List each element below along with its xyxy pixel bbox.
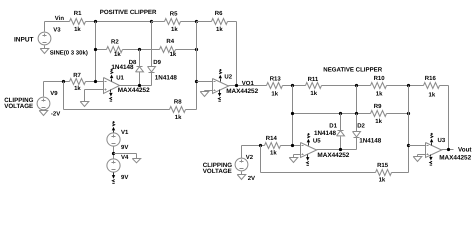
- svg-text:V3: V3: [53, 26, 61, 33]
- ground at V9: [39, 111, 48, 116]
- svg-text:R10: R10: [374, 75, 386, 82]
- svg-text:V2: V2: [246, 154, 254, 161]
- resistor R8: [170, 107, 186, 113]
- wire feedback column x=63.5 down and R8 row y=107.9: [63, 82, 65, 110]
- svg-text:R8: R8: [174, 99, 182, 106]
- diode D8: [137, 66, 143, 68]
- svg-text:1N4148: 1N4148: [314, 130, 337, 137]
- ground at U1 + input: [80, 102, 89, 107]
- svg-text:NEGATIVE CLIPPER: NEGATIVE CLIPPER: [323, 66, 382, 73]
- wire V2 bottom stem: [241, 172, 243, 175]
- svg-text:V1: V1: [121, 129, 129, 136]
- junction node A branch to R2: [94, 48, 97, 51]
- wire supply midpoint to ground: [114, 153, 137, 155]
- wire U5 noninverting input to ground: [294, 154, 301, 156]
- svg-text:1k: 1k: [114, 51, 121, 58]
- wire R1 right to junction A: [86, 21, 152, 23]
- junction node B branch to R9 row: [291, 112, 294, 115]
- wire clipping voltage row y=81.5 to R7: [44, 81, 70, 83]
- svg-text:R11: R11: [308, 76, 319, 83]
- voltage source V4: [107, 159, 120, 172]
- V- flag at V4 supply: [113, 173, 115, 176]
- voltage source V1: [107, 133, 120, 146]
- svg-text:R4: R4: [166, 38, 174, 45]
- wire R5 leads: [152, 21, 165, 23]
- svg-text:MAX44252: MAX44252: [317, 152, 349, 159]
- svg-text:V4: V4: [121, 154, 129, 161]
- voltage source V2: [235, 158, 248, 171]
- svg-text:1k: 1k: [429, 92, 436, 99]
- V+ flag at V1 supply: [113, 131, 115, 134]
- wire U3 inverting input: [409, 145, 426, 147]
- ground at supply midpoint: [132, 159, 140, 163]
- resistor R15: [376, 170, 392, 176]
- svg-text:1k: 1k: [74, 26, 81, 33]
- op-amp U1 MAX44252: [104, 78, 120, 94]
- wire R10 right lead: [387, 85, 424, 87]
- svg-text:1k: 1k: [270, 150, 277, 157]
- svg-text:1k: 1k: [171, 26, 178, 33]
- wire D2 column to diode: [356, 114, 358, 132]
- junction U2 output with R6 feedback: [235, 84, 238, 87]
- wire node A vertical down to U1 inverting input: [95, 22, 97, 82]
- svg-text:U1: U1: [116, 74, 124, 81]
- svg-text:-2V: -2V: [51, 110, 60, 117]
- svg-text:U2: U2: [224, 73, 232, 80]
- wire R16 right corner down to U3 output: [440, 85, 449, 87]
- svg-text:D9: D9: [153, 59, 161, 66]
- junction R7 left / feedback branch: [62, 80, 65, 83]
- V+ flag at U5: [308, 143, 310, 146]
- ground at U2 + input: [200, 92, 209, 97]
- junction U2 inverting input node: [195, 80, 198, 83]
- junction node A (R1/R5/vertical): [94, 20, 97, 23]
- svg-text:INPUT: INPUT: [14, 37, 34, 44]
- svg-text:1N4148: 1N4148: [111, 64, 134, 71]
- voltage source V9: [37, 97, 50, 110]
- resistor R6: [212, 19, 228, 25]
- svg-text:MAX44252: MAX44252: [226, 88, 258, 95]
- wire V3 stem to top rail: [44, 22, 46, 32]
- V- flag at U5: [307, 155, 309, 158]
- svg-text:1k: 1k: [379, 177, 386, 184]
- wire R8 right to rising column: [186, 109, 197, 111]
- svg-text:9V: 9V: [121, 174, 128, 181]
- voltage source V3: [38, 32, 51, 45]
- svg-text:U3: U3: [438, 137, 446, 144]
- svg-text:Vin: Vin: [55, 15, 65, 22]
- svg-text:1N4148: 1N4148: [359, 138, 382, 145]
- wire R15 row y=173.5: [261, 172, 376, 174]
- wire D9 column from junction down: [151, 22, 153, 67]
- V- flag at U2: [219, 90, 221, 94]
- wire D2 bar to U5 output rail corner: [356, 138, 358, 150]
- svg-text:POSITIVE CLIPPER: POSITIVE CLIPPER: [100, 9, 157, 16]
- wire R2 to D8 node: [123, 49, 160, 51]
- svg-text:MAX44252: MAX44252: [118, 87, 150, 94]
- svg-text:1k: 1k: [375, 118, 382, 125]
- wire V9 bottom stem: [43, 110, 45, 112]
- junction D8 top node: [138, 48, 141, 51]
- svg-text:R13: R13: [270, 75, 282, 82]
- wire U2 noninverting input to ground: [205, 90, 213, 92]
- resistor R4: [160, 47, 176, 53]
- wire U1 output rail y=85.5: [120, 85, 152, 87]
- wire V3 bottom to ground: [44, 46, 46, 49]
- V- flag at U3: [430, 155, 432, 157]
- junction R14 left / R15 branch: [259, 144, 262, 147]
- wire R2/R4 row y=49.3: [96, 49, 107, 51]
- resistor R2: [107, 47, 123, 53]
- wire node B vertical down to U5 inverting input: [292, 86, 294, 146]
- junction R10/R16 node: [407, 84, 410, 87]
- V+ flag at U2: [220, 79, 222, 82]
- junction R11/R10 node with D2 column: [355, 84, 358, 87]
- wire R11 right lead: [322, 85, 371, 87]
- svg-text:R9: R9: [374, 103, 382, 110]
- diode D1: [338, 130, 344, 132]
- svg-text:R5: R5: [170, 10, 178, 17]
- wire column x=196.3 from R8 row up to top rail: [196, 22, 198, 110]
- wire D8 cathode to U1 output rail: [139, 72, 141, 86]
- svg-text:SINE(0 3 30k): SINE(0 3 30k): [50, 49, 88, 56]
- svg-text:1N4148: 1N4148: [155, 75, 178, 82]
- wire R15 branch column x=260.5: [260, 146, 262, 173]
- ground at U3 + input: [413, 157, 422, 162]
- junction node B (R13/R11/vertical): [291, 84, 294, 87]
- wire Vin net: V3 to R1 to node A (top rail y=21.4): [45, 21, 70, 23]
- svg-text:VOLTAGE: VOLTAGE: [203, 168, 232, 175]
- resistor R5: [165, 19, 181, 25]
- wire R7 to U1 inverting input: [86, 81, 104, 83]
- resistor R10: [371, 83, 387, 89]
- V- flag at U1: [110, 90, 112, 93]
- junction R5/R6 node: [195, 20, 198, 23]
- junction D9 column top: [150, 20, 153, 23]
- resistor R11: [306, 83, 322, 89]
- junction D1 on U5 output rail: [339, 148, 342, 151]
- op-amp U5 MAX44252: [301, 143, 317, 158]
- junction U3 output with R16 feedback: [447, 148, 450, 151]
- junction U5 inverting input node: [291, 144, 294, 147]
- svg-text:1k: 1k: [216, 26, 223, 33]
- junction supply midpoint: [112, 152, 115, 155]
- wire U3 noninverting input to ground: [418, 154, 426, 156]
- op-amp U3 MAX44252: [426, 143, 442, 158]
- svg-text:R6: R6: [215, 10, 223, 17]
- ground at V3: [40, 49, 49, 54]
- wire column x=408.8 from main rail down to R15 row: [408, 86, 410, 173]
- junction R9 right on column x=408.8: [407, 112, 410, 115]
- svg-text:MAX44252: MAX44252: [439, 155, 471, 162]
- svg-text:R14: R14: [266, 135, 278, 142]
- svg-text:1k: 1k: [376, 91, 383, 98]
- ground at U5 + input: [289, 158, 298, 163]
- wire U1 noninverting input to ground: [85, 89, 104, 91]
- svg-text:1k: 1k: [175, 114, 182, 121]
- wire D1 to U5 output rail: [340, 137, 342, 150]
- diode D9: [148, 67, 156, 72]
- svg-text:1k: 1k: [74, 85, 81, 92]
- junction D1 top node: [339, 112, 342, 115]
- resistor R7: [70, 79, 86, 85]
- svg-text:1k: 1k: [271, 90, 278, 97]
- op-amp U2 MAX44252: [213, 79, 229, 94]
- V+ flag at U3: [431, 143, 433, 146]
- wire U3 output / Vout net: [442, 149, 454, 151]
- wire R9 row y=114.3: [293, 113, 371, 115]
- junction R4 right on feedback column: [195, 48, 198, 51]
- ground at V2: [237, 175, 246, 180]
- svg-text:9V: 9V: [121, 144, 128, 151]
- resistor R16: [424, 83, 440, 89]
- wire R9 right lead: [387, 113, 409, 115]
- wire R14 to U5 inverting input: [281, 145, 301, 147]
- V+ flag at U1: [111, 79, 113, 82]
- svg-text:1k: 1k: [170, 51, 177, 58]
- svg-text:R15: R15: [377, 162, 389, 169]
- wire U5 output rail y=149.8: [317, 149, 357, 151]
- junction D2 top node: [355, 112, 358, 115]
- resistor R13: [267, 83, 283, 89]
- wire R13 to node B: [283, 85, 306, 87]
- svg-text:1k: 1k: [310, 90, 317, 97]
- svg-text:R16: R16: [425, 75, 437, 82]
- svg-text:R1: R1: [74, 10, 82, 17]
- wire clipping voltage row y=145 to R14: [242, 145, 265, 147]
- wire R6 leads and corner down to U2 output: [197, 21, 212, 23]
- wire U2 output / VO1 net: [229, 85, 267, 87]
- svg-text:VOLTAGE: VOLTAGE: [4, 103, 33, 110]
- svg-text:V9: V9: [50, 90, 58, 97]
- svg-text:R7: R7: [73, 72, 81, 79]
- wire V9 riser: [43, 82, 45, 97]
- wire R15 right lead: [392, 172, 409, 174]
- resistor R9: [371, 111, 387, 117]
- wire D1 anode lead: [340, 114, 342, 131]
- wire V2 riser: [241, 146, 243, 159]
- junction U1 inverting input node: [94, 80, 97, 83]
- svg-text:Vout: Vout: [458, 147, 472, 154]
- wire V1 to V4: [113, 147, 115, 160]
- junction U3 inverting input node: [407, 144, 410, 147]
- wire D9 bar to U1 output rail corner: [151, 73, 153, 86]
- svg-text:D1: D1: [329, 123, 337, 130]
- wire R4 right lead: [176, 49, 197, 51]
- junction D8 cathode on output rail: [138, 84, 141, 87]
- svg-text:2V: 2V: [248, 175, 255, 182]
- wire D2 column upper part: [356, 86, 358, 114]
- wire D8 anode lead: [139, 50, 141, 67]
- diode D2: [353, 132, 361, 137]
- svg-text:VO1: VO1: [242, 80, 255, 87]
- svg-text:R2: R2: [111, 38, 119, 45]
- svg-text:U5: U5: [313, 138, 321, 145]
- resistor R1: [70, 19, 86, 25]
- wire U2 inverting input: [197, 81, 213, 83]
- resistor R14: [265, 143, 281, 149]
- svg-text:D2: D2: [357, 123, 365, 130]
